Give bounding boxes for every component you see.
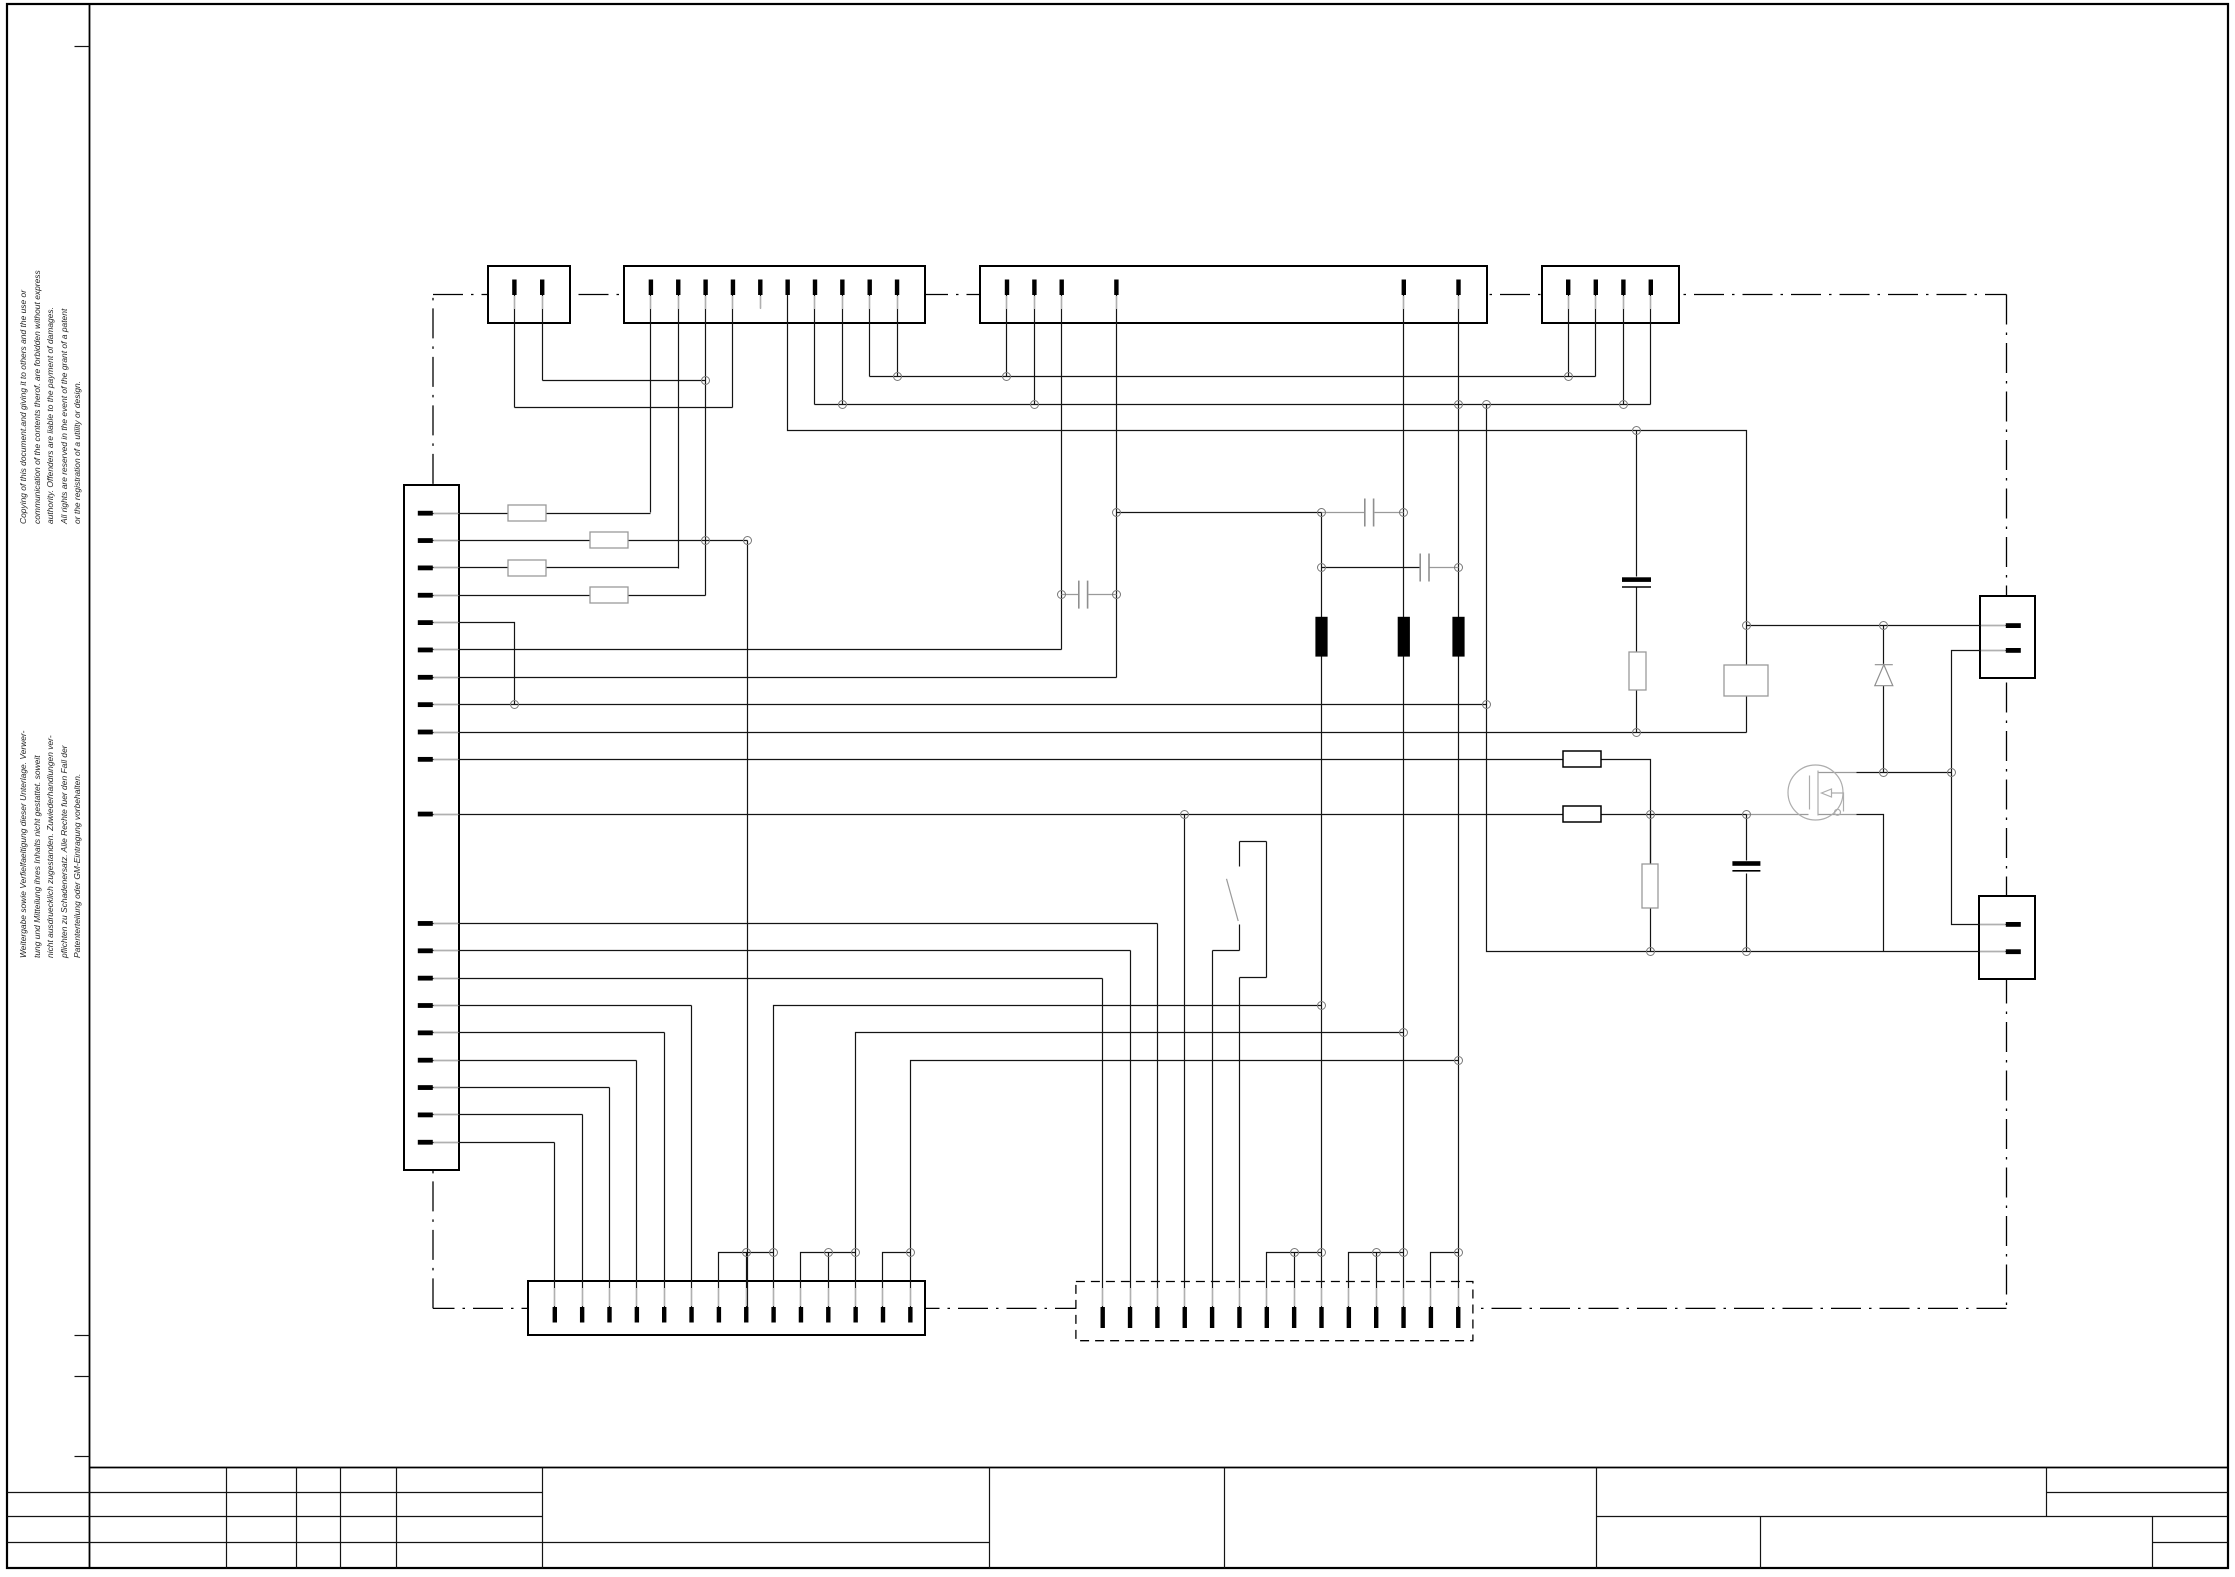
X5 pin 2 xyxy=(418,538,433,543)
title block row line 1 xyxy=(8,1492,543,1494)
wire R2 to strap column xyxy=(629,540,748,542)
X7 pin 14 xyxy=(1456,1307,1460,1328)
title block vline b xyxy=(296,1468,298,1569)
node row A / X4 pin1 xyxy=(1565,373,1573,381)
node X6 strap1 pin9 xyxy=(770,1249,778,1257)
connector X2 block top 10-pin xyxy=(624,266,925,323)
wire X2 pin5 stub xyxy=(760,295,762,309)
X2 pin 1 xyxy=(649,280,653,296)
X9 pin 2 xyxy=(2006,949,2021,954)
X6 pin 13 xyxy=(881,1307,885,1323)
X6 pin 3 xyxy=(607,1307,611,1323)
wire MOSFET source to X9 pin2 net xyxy=(1857,815,1884,952)
wire ferrite L1 row xyxy=(774,1006,1322,1308)
wire C1 lead right xyxy=(1375,512,1404,514)
node C1 row / L1 xyxy=(1318,509,1326,517)
wire X7 strap pins7-9 xyxy=(1267,1253,1322,1308)
node C1 row left xyxy=(1113,509,1121,517)
top block pin leads gray segments xyxy=(515,296,1651,309)
X5 pin 4 xyxy=(418,593,433,598)
switch S1 contact bottom lead xyxy=(1239,925,1241,951)
wire X5 pin11 gate row xyxy=(433,814,1564,816)
X7 pin 3 xyxy=(1155,1307,1159,1328)
X5 pin leads gray segments xyxy=(434,514,459,1143)
connector X4 block top-right xyxy=(1542,266,1679,323)
X5 pin 13 xyxy=(418,948,433,953)
wire X3 pin3 drop xyxy=(1061,295,1063,650)
connector X8 right upper block xyxy=(1980,596,2035,678)
title block vline e xyxy=(542,1468,544,1569)
wire drop to X7 pin3 xyxy=(1157,924,1159,1308)
connector X9 right lower block xyxy=(1979,896,2035,979)
node X6 strap2 pin11 xyxy=(825,1249,833,1257)
wire drop to X6 pin5 xyxy=(664,1033,666,1308)
X2 pin 2 xyxy=(676,280,680,296)
frame column divider xyxy=(89,5,91,1569)
wire X5 pin13 row xyxy=(433,950,1131,952)
node X6 strap2 pin12 xyxy=(852,1249,860,1257)
X3 pin 3 xyxy=(1060,280,1064,296)
X7 pin 4 xyxy=(1183,1307,1187,1328)
wire X3 pin5 / ferrite L2 column xyxy=(1403,295,1405,1308)
wire R3 to X2 pin2 xyxy=(547,567,679,569)
wire X5 pin17 row xyxy=(433,1060,637,1062)
node R6 bottom xyxy=(1647,948,1655,956)
X2 pin 5 xyxy=(758,280,762,296)
node row A / X3 pin1 xyxy=(1003,373,1011,381)
wire X6 pin8 riser xyxy=(746,1253,748,1308)
X4 pin 2 xyxy=(1594,280,1598,296)
wire gate cap column bottom xyxy=(1746,874,1748,952)
X4 pin 1 xyxy=(1566,280,1570,296)
node row A / X2 pin10 xyxy=(894,373,902,381)
wire X7 strap pins13-14 xyxy=(1431,1253,1459,1308)
wire gate row R7 to cap node xyxy=(1602,814,1747,816)
title block top edge xyxy=(90,1467,2228,1469)
wire X5 pin20 row xyxy=(433,1142,555,1144)
connector X5 left tall block xyxy=(404,485,459,1170)
X1 pin 1 xyxy=(512,280,516,296)
inductor L2 ferrite bead xyxy=(1398,617,1410,657)
node drain row / X8-X9 link xyxy=(1948,769,1956,777)
wire C1 row left xyxy=(1117,512,1322,514)
ECU boundary dash-dot bottom edge xyxy=(433,1307,2007,1309)
node R2 row / X2 pin3 xyxy=(702,537,710,545)
node C1 right xyxy=(1400,509,1408,517)
X5 pin 3 xyxy=(418,566,433,571)
X3 pin 1 xyxy=(1005,280,1009,296)
wire R4 to X2 pin3 xyxy=(629,595,706,597)
diode D1 xyxy=(1875,665,1893,686)
X7 pin 2 xyxy=(1128,1307,1132,1328)
resistor R1 xyxy=(508,505,546,521)
capacitor C2 xyxy=(1079,581,1088,609)
wire gate cap column top xyxy=(1746,815,1748,861)
capacitor C4 polarized top plate xyxy=(1622,577,1651,582)
wire net row A (X2 pin9 to X4 pin2) xyxy=(870,376,1596,378)
X7 pin 6 xyxy=(1237,1307,1241,1328)
connector X7 bottom dashed block xyxy=(1076,1282,1473,1341)
ECU boundary dash-dot left edge xyxy=(432,295,434,1309)
wire ferrite L2 row xyxy=(856,1033,1404,1308)
X5 pin 8 xyxy=(418,702,433,707)
X7 pin 9 xyxy=(1319,1307,1323,1328)
X1 pin 2 xyxy=(540,280,544,296)
X3 pin 4 xyxy=(1114,280,1118,296)
X6 pin 12 xyxy=(853,1307,857,1323)
X5 pin 6 xyxy=(418,648,433,653)
wire X5 pin12 row xyxy=(433,923,1158,925)
wire switch bypass bottom xyxy=(1240,977,1267,979)
wire MOSFET drain lead gray xyxy=(1819,772,1857,774)
wire net row D (X1 pin1 to X2 pin4) xyxy=(515,407,733,409)
wire switch bypass right xyxy=(1266,842,1268,978)
frame tick 3 xyxy=(75,1376,90,1378)
wire ecap to R8 xyxy=(1636,587,1638,653)
wire drop to X6 pin2 xyxy=(582,1115,584,1308)
copyright notice english (rotated) xyxy=(17,270,85,524)
X5 pin 15 xyxy=(418,1003,433,1008)
X3 pin 5 xyxy=(1402,280,1406,296)
wire X5 pin6 row xyxy=(433,649,1062,651)
X2 pin 4 xyxy=(731,280,735,296)
wire X2 pin4 drop xyxy=(732,295,734,408)
wire drop to X6 pin4 xyxy=(636,1061,638,1308)
node row C / X2 pin8 xyxy=(839,401,847,409)
wire X5 pin15 row xyxy=(433,1005,692,1007)
X8 pin 1 xyxy=(2006,623,2021,628)
node diode top xyxy=(1880,622,1888,630)
title block row right 3 xyxy=(2153,1542,2228,1544)
wire X5 pin19 row xyxy=(433,1114,583,1116)
resistor R5 xyxy=(1563,751,1601,767)
capacitor C5 polarized top plate xyxy=(1732,861,1760,866)
X5 pin 18 xyxy=(418,1085,433,1090)
wire X5 pin16 row xyxy=(433,1032,665,1034)
node X7 strap3 pin14 xyxy=(1455,1249,1463,1257)
wire X4 pin2 drop xyxy=(1595,295,1597,377)
node sense / pin8 row xyxy=(1483,701,1491,709)
wire X2 pin8 drop xyxy=(842,295,844,405)
node relay top tap xyxy=(1743,622,1751,630)
ECU boundary dash-dot top edge xyxy=(433,294,2007,296)
node row C / X4 pin3 xyxy=(1620,401,1628,409)
wire MOSFET source lead gray xyxy=(1819,814,1857,816)
wire X3 pin6 / ferrite L3 column xyxy=(1458,295,1460,1308)
node row C / L3 column xyxy=(1455,401,1463,409)
wire switch link to pin5 column xyxy=(1213,950,1240,952)
X6 pin 2 xyxy=(580,1307,584,1323)
X2 pin 7 xyxy=(813,280,817,296)
wire X5 pin18 row xyxy=(433,1087,610,1089)
inductor L1 ferrite bead xyxy=(1315,617,1327,657)
wire X5 pin9 row xyxy=(433,732,1747,734)
wire X2 pin9 drop xyxy=(869,295,871,377)
wire X4 pin3 drop xyxy=(1623,295,1625,405)
X7 pin 5 xyxy=(1210,1307,1214,1328)
wire gate lead gray xyxy=(1747,814,1809,816)
wire X7 pin8 riser xyxy=(1294,1253,1296,1308)
wire X5 pin14 row xyxy=(433,978,1103,980)
X9 pin 1 xyxy=(2006,922,2021,927)
wire drop to X7 pin1 xyxy=(1102,979,1104,1308)
title block vline c xyxy=(340,1468,342,1569)
wire right net row xyxy=(1651,951,1884,953)
wire X4 pin4 drop xyxy=(1650,295,1652,405)
wire R6 column bottom xyxy=(1650,908,1652,952)
node C2 right xyxy=(1113,591,1121,599)
capacitor C5 bottom plate xyxy=(1732,870,1760,872)
wire diode column top xyxy=(1883,626,1885,665)
node ferrite L1 row xyxy=(1318,1002,1326,1010)
X6 pin 14 xyxy=(908,1307,912,1323)
node pin5 jumper xyxy=(511,701,519,709)
wire X6 strap pins10-12 xyxy=(801,1253,856,1308)
wire X3 pin1 drop xyxy=(1006,295,1008,377)
wire X5 pin3 row to R3 xyxy=(433,567,509,569)
wire sense column lower to right net xyxy=(1487,705,1651,952)
X5 pin 16 xyxy=(418,1030,433,1035)
copyright notice german (rotated) xyxy=(17,731,85,958)
X6 pin 10 xyxy=(799,1307,803,1323)
wire drop to X6 pin3 xyxy=(609,1088,611,1308)
X3 pin 6 xyxy=(1456,280,1460,296)
wire switch to X7 pin6 xyxy=(1239,978,1241,1308)
wire X2 pin7 drop xyxy=(814,295,816,405)
node X7 strap2 pin12 xyxy=(1400,1249,1408,1257)
wire X7 pin11 riser xyxy=(1376,1253,1378,1308)
title block vline a xyxy=(226,1468,228,1569)
wire diode column bottom xyxy=(1883,686,1885,773)
node X6 strap1 pin8 xyxy=(743,1249,751,1257)
X5 pin 9 xyxy=(418,730,433,735)
X6 pin 7 xyxy=(717,1307,721,1323)
relay K1 coil xyxy=(1724,665,1768,696)
X5 pin 7 xyxy=(418,675,433,680)
wire switch top link xyxy=(1240,841,1267,843)
capacitor C1 xyxy=(1365,499,1374,527)
X5 pin 14 xyxy=(418,976,433,981)
X6 pin 4 xyxy=(635,1307,639,1323)
X5 pin 11 xyxy=(418,812,433,817)
resistor R7 xyxy=(1563,806,1601,822)
title block row line 2 xyxy=(8,1516,543,1518)
wire drop to X7 pin4 (gate tap) xyxy=(1184,815,1186,1308)
node C3 right xyxy=(1455,564,1463,572)
node diode bottom xyxy=(1880,769,1888,777)
wire strap column to X6 pin8 xyxy=(747,541,749,1308)
wire R1 to X2 pin1 xyxy=(547,513,651,515)
wire net row B (X1 pin2 to X2 pin3) xyxy=(543,380,706,382)
connector X1 block top-left xyxy=(488,266,570,323)
capacitor C3 xyxy=(1420,554,1429,582)
X5 pin 12 xyxy=(418,921,433,926)
wire X5 pin5 jumper down xyxy=(433,623,515,705)
wire X5 pin7 row xyxy=(433,677,1117,679)
frame tick 1 xyxy=(75,46,90,48)
wire X2 pin6 to node top (row E) xyxy=(788,295,1747,665)
wire drop to X7 pin5 xyxy=(1212,951,1214,1308)
title block vline j xyxy=(1760,1517,1762,1569)
X6 pin 8 xyxy=(744,1307,748,1323)
connector X6 bottom-left block xyxy=(528,1281,925,1335)
wire X6 strap pins7-9 xyxy=(719,1253,774,1308)
wire ferrite L1 column xyxy=(1321,513,1323,1308)
title block vline f xyxy=(989,1468,991,1569)
wire X3 pin4 drop xyxy=(1116,295,1118,678)
node X6 strap3 pin14 xyxy=(907,1249,915,1257)
X6 pin 1 xyxy=(553,1307,557,1323)
X7 pin 10 xyxy=(1347,1307,1351,1328)
wire X1 pin1 drop xyxy=(514,295,516,408)
resistor R2 xyxy=(590,532,628,548)
X7 pin 8 xyxy=(1292,1307,1296,1328)
wire X5 pin4 row to R4 xyxy=(433,595,591,597)
X7 pin 12 xyxy=(1401,1307,1405,1328)
wire X8 pin1 row xyxy=(1747,625,2006,627)
capacitor C4 bottom plate xyxy=(1622,586,1651,588)
node row C / sense column xyxy=(1483,401,1491,409)
title block vline h xyxy=(1596,1468,1598,1569)
X2 pin 8 xyxy=(840,280,844,296)
X7 pin 7 xyxy=(1265,1307,1269,1328)
X6 pin 6 xyxy=(689,1307,693,1323)
wire relay column lower xyxy=(1746,697,1748,733)
wire X6 pin11 riser xyxy=(828,1253,830,1308)
wire R5 to gate column xyxy=(1602,760,1651,864)
X2 pin 6 xyxy=(785,280,789,296)
X5 pin 10 xyxy=(418,757,433,762)
X5 pin 19 xyxy=(418,1113,433,1118)
X8 pin 2 xyxy=(2006,648,2021,653)
transistor Q1 MOSFET xyxy=(1788,765,1844,820)
wire ferrite L3 row xyxy=(911,1061,1459,1308)
node ferrite L3 row xyxy=(1455,1057,1463,1065)
wire X1 pin2 drop xyxy=(542,295,544,381)
node ferrite L2 row xyxy=(1400,1029,1408,1037)
node cap C5 bottom xyxy=(1743,948,1751,956)
node ecap top xyxy=(1633,427,1641,435)
wire X5 pin1 row to R1 xyxy=(433,513,509,515)
X6 pin 5 xyxy=(662,1307,666,1323)
wire R6 column mid xyxy=(1650,815,1652,864)
wire net row C (X2 pin7 to X4 pin4) xyxy=(815,404,1651,406)
X7 pin 11 xyxy=(1374,1307,1378,1328)
switch S1 blade xyxy=(1227,879,1239,921)
wire C2 lead left xyxy=(1062,594,1079,596)
wire X5 pin10 row to R5 xyxy=(433,759,1564,761)
resistor R3 xyxy=(508,560,546,576)
wire drop to X7 pin2 xyxy=(1130,951,1132,1308)
frame tick 2 xyxy=(75,1335,90,1337)
wire X5 pin2 row to R2 xyxy=(433,540,591,542)
title block row line 3 xyxy=(8,1542,990,1544)
X2 pin 10 xyxy=(895,280,899,296)
node X7 strap1 pin9 xyxy=(1318,1249,1326,1257)
node row B / X2 pin3 xyxy=(702,377,710,385)
title block vline i xyxy=(2046,1468,2048,1517)
wire X8 pin2 row xyxy=(1952,651,2006,925)
X2 pin 9 xyxy=(868,280,872,296)
node gate / cap column xyxy=(1743,811,1751,819)
resistor R8 xyxy=(1629,652,1646,690)
X2 pin 3 xyxy=(703,280,707,296)
X5 pin 17 xyxy=(418,1058,433,1063)
wire sense column xyxy=(1486,405,1488,705)
wire C3 lead right xyxy=(1430,567,1459,569)
node ecap bottom xyxy=(1633,729,1641,737)
wire right net to X9 pin2 xyxy=(1884,951,2006,953)
node X7 strap1 pin8 xyxy=(1291,1249,1299,1257)
node C3 left xyxy=(1318,564,1326,572)
wire C1 lead left xyxy=(1322,512,1365,514)
wire drop to X6 pin6 xyxy=(691,1006,693,1308)
node X7 strap2 pin11 xyxy=(1373,1249,1381,1257)
wire MOSFET drain lead xyxy=(1857,772,1884,774)
wire R8 to row9 xyxy=(1636,691,1638,733)
node C2 left xyxy=(1058,591,1066,599)
wire X2 pin10 drop xyxy=(897,295,899,377)
title block vline d xyxy=(396,1468,398,1569)
title block row right 1 xyxy=(2047,1492,2228,1494)
wire X4 pin1 drop xyxy=(1568,295,1570,377)
wire X5 pin8 row xyxy=(433,704,1487,706)
X5 pin 20 xyxy=(418,1140,433,1145)
resistor R4 xyxy=(590,587,628,603)
wire X2 pin2 drop xyxy=(678,295,680,569)
wire X2 pin3 drop xyxy=(705,295,707,596)
X7 pin 1 xyxy=(1101,1307,1105,1328)
node R2 row end xyxy=(744,537,752,545)
bottom connector pin leads gray segments xyxy=(555,1288,1459,1306)
connector X3 block top wide xyxy=(980,266,1487,323)
X5 pin 1 xyxy=(418,511,433,516)
title block vline g xyxy=(1224,1468,1226,1569)
X6 pin 11 xyxy=(826,1307,830,1323)
X6 pin 9 xyxy=(771,1307,775,1323)
switch S1 fixed contact top xyxy=(1239,842,1241,867)
wire C3 row left xyxy=(1322,567,1420,569)
X3 pin 2 xyxy=(1032,280,1036,296)
X7 pin 13 xyxy=(1429,1307,1433,1328)
X4 pin 3 xyxy=(1621,280,1625,296)
wire X3 pin2 drop xyxy=(1034,295,1036,405)
wire C2 lead right xyxy=(1089,594,1117,596)
X5 pin 5 xyxy=(418,620,433,625)
node gate / R5 column xyxy=(1647,811,1655,819)
ECU boundary dash-dot right edge xyxy=(2006,295,2008,1309)
node row C / X3 pin2 xyxy=(1031,401,1039,409)
title block row right 2 xyxy=(1597,1516,2228,1518)
resistor R6 xyxy=(1642,864,1658,908)
inductor L3 ferrite bead xyxy=(1452,617,1464,657)
wire X6 strap pins13-14 xyxy=(883,1253,911,1308)
X4 pin 4 xyxy=(1649,280,1653,296)
right connector pin leads gray segments xyxy=(1980,626,2005,952)
wire X7 strap pins10-12 xyxy=(1349,1253,1404,1308)
node gate / X7 pin4 xyxy=(1181,811,1189,819)
title block vline k xyxy=(2152,1517,2154,1569)
wire drop to X6 pin1 xyxy=(554,1143,556,1308)
wire X2 pin1 drop xyxy=(650,295,652,513)
wire ecap top xyxy=(1636,431,1638,577)
wire drain row xyxy=(1884,772,1952,774)
frame tick 4 xyxy=(75,1456,90,1458)
